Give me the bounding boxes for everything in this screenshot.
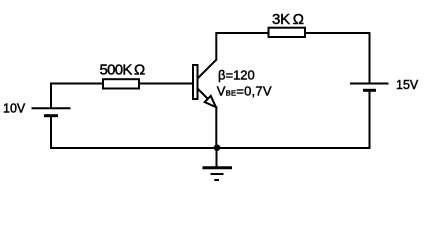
battery V1 positive plate [32,107,71,109]
svg-text:β=120: β=120 [218,68,255,83]
svg-text:15V: 15V [396,78,419,92]
resistor R2 body [269,28,306,37]
ground middle bar [211,173,224,175]
wire collector vertical up to top rail [216,33,268,61]
transistor Q1 base bar [193,65,198,99]
node junction dot at emitter/ground [214,144,221,151]
transistor Q1 emitter diagonal [198,89,217,108]
wire right vertical from top rail to battery V2 [369,32,371,84]
battery V1 negative plate [44,114,58,117]
wire emitter vertical down to bottom rail [215,106,217,148]
resistor R1 body [103,79,139,88]
transistor Q1 emitter arrowhead [205,96,216,107]
battery V2 negative plate [363,89,376,92]
wire bottom rail [50,147,371,149]
battery V2 positive plate [350,83,389,85]
svg-text:VBE=0,7V: VBE=0,7V [217,83,272,98]
transistor Q1 collector diagonal [198,60,217,79]
wire top rail right of resistor R2 [305,32,371,34]
svg-text:3K Ω: 3K Ω [272,11,304,28]
wire from battery V1 down to bottom rail [50,116,52,149]
ground top bar [203,166,233,169]
wire from junction down to ground [216,148,218,168]
wire from resistor R1 to transistor base [139,83,193,85]
wire from battery V2 down to bottom rail [369,90,371,148]
ground bottom bar [214,179,219,181]
svg-text:10V: 10V [3,101,26,115]
svg-text:500K Ω: 500K Ω [100,61,146,78]
wire base left horizontal from battery V1 to resistor R1 [51,83,103,85]
wire left vertical from base wire down to battery V1 [50,83,52,109]
